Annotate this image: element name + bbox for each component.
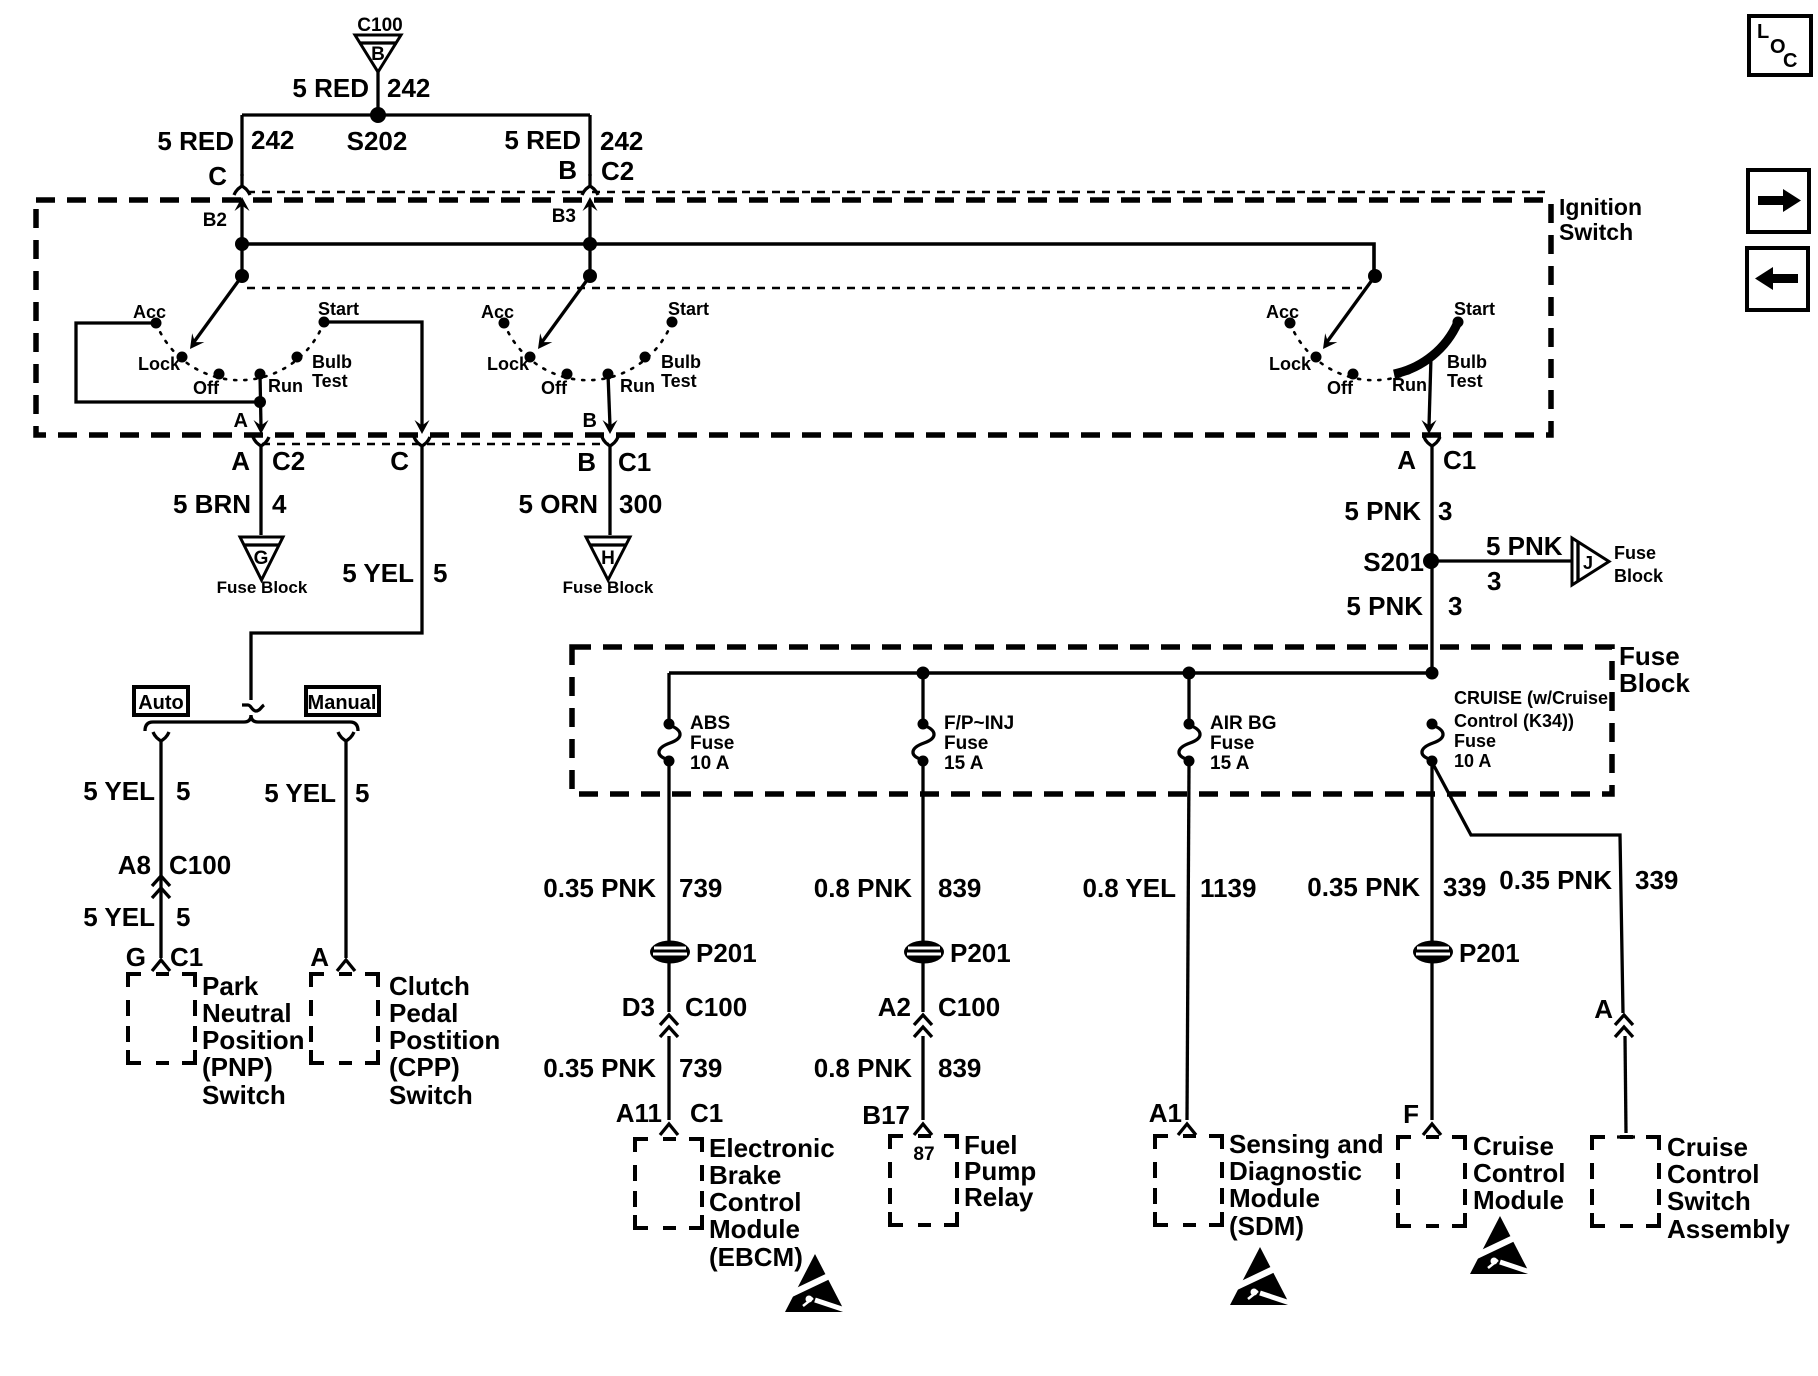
svg-text:A: A [1594, 994, 1613, 1024]
svg-text:339: 339 [1635, 865, 1678, 895]
connector H triangle (fuse block) [563, 537, 654, 597]
svg-text:J: J [1583, 553, 1593, 573]
connector fork B/C1 [602, 437, 618, 458]
svg-text:B: B [371, 44, 385, 65]
connector J triangle (fuse block) [1572, 538, 1664, 586]
svg-text:Position: Position [202, 1025, 305, 1055]
svg-text:5 PNK: 5 PNK [1486, 531, 1563, 561]
switch 3 closed arm Run-Start (thick arc) [1394, 322, 1458, 374]
PNP switch box [128, 974, 195, 1063]
svg-text:Off: Off [1327, 378, 1354, 398]
svg-text:Fuse: Fuse [690, 733, 734, 754]
svg-text:(PNP): (PNP) [202, 1052, 273, 1082]
svg-text:Test: Test [312, 371, 348, 391]
svg-text:C100: C100 [685, 992, 747, 1022]
svg-text:Clutch: Clutch [389, 971, 470, 1001]
svg-text:5: 5 [355, 778, 369, 808]
svg-text:739: 739 [679, 873, 722, 903]
svg-text:739: 739 [679, 1053, 722, 1083]
svg-text:(EBCM): (EBCM) [709, 1242, 803, 1272]
CPP switch box [311, 974, 378, 1063]
svg-text:Lock: Lock [1269, 354, 1312, 374]
svg-text:242: 242 [387, 73, 430, 103]
svg-text:S201: S201 [1363, 547, 1424, 577]
connector hook at wire end [242, 705, 264, 711]
svg-text:3: 3 [1438, 496, 1452, 526]
svg-text:3: 3 [1487, 566, 1501, 596]
options brace [145, 715, 358, 731]
connector fork A/C2 [253, 437, 269, 458]
connector C100 pin D3 (inline) [660, 1015, 678, 1037]
svg-text:Auto: Auto [138, 692, 184, 714]
svg-text:Postition: Postition [389, 1025, 500, 1055]
connector C100 pin A8 (inline) [152, 876, 170, 898]
grommet P201 [1413, 941, 1453, 964]
svg-text:Acc: Acc [1266, 302, 1299, 322]
wire AIR BG branch [1187, 766, 1189, 1120]
svg-text:P201: P201 [696, 938, 757, 968]
junction dots on fuse bus [917, 667, 930, 680]
ESD symbol SDM [1230, 1247, 1293, 1305]
label Manual box [306, 687, 379, 715]
svg-text:Control: Control [1473, 1158, 1565, 1188]
wire S202 horizontal [242, 113, 590, 116]
svg-text:Test: Test [661, 371, 697, 391]
svg-text:0.35 PNK: 0.35 PNK [543, 1053, 656, 1083]
connector C100 (triangle, pin B) [355, 15, 403, 72]
svg-text:Acc: Acc [133, 302, 166, 322]
svg-text:C: C [1783, 50, 1797, 72]
svg-text:5 PNK: 5 PNK [1344, 496, 1421, 526]
svg-text:B: B [577, 447, 596, 477]
F/P-INJ fuse 15A [921, 673, 924, 720]
svg-text:339: 339 [1443, 872, 1486, 902]
svg-text:5 RED: 5 RED [157, 126, 234, 156]
svg-text:Switch: Switch [1559, 219, 1633, 245]
ignition switch box [36, 200, 1551, 435]
ESD symbol EBCM [785, 1254, 848, 1312]
svg-text:Switch: Switch [389, 1080, 473, 1110]
svg-text:Ignition: Ignition [1559, 194, 1642, 220]
svg-text:C2: C2 [601, 156, 634, 186]
wire to H [608, 458, 611, 535]
svg-text:Test: Test [1447, 371, 1483, 391]
svg-text:0.8 PNK: 0.8 PNK [814, 1053, 912, 1083]
svg-text:P201: P201 [1459, 938, 1520, 968]
svg-text:B: B [558, 155, 577, 185]
svg-text:4: 4 [272, 489, 287, 519]
svg-text:Start: Start [1454, 299, 1495, 319]
svg-text:A: A [234, 410, 248, 432]
wire S201 to J [1431, 559, 1572, 562]
svg-text:ABS: ABS [690, 713, 730, 734]
svg-text:(CPP): (CPP) [389, 1052, 460, 1082]
svg-text:0.35 PNK: 0.35 PNK [1307, 872, 1420, 902]
svg-text:G: G [126, 942, 146, 972]
svg-text:Sensing and: Sensing and [1229, 1129, 1384, 1159]
svg-text:C1: C1 [618, 447, 651, 477]
switch 3 arm [1327, 276, 1375, 342]
svg-text:A: A [231, 446, 250, 476]
connector fork C [234, 174, 250, 195]
svg-text:S202: S202 [347, 126, 408, 156]
svg-text:300: 300 [619, 489, 662, 519]
wire Start to C [324, 322, 422, 426]
svg-text:Start: Start [668, 299, 709, 319]
svg-text:H: H [601, 548, 615, 569]
ABS fuse 10A [667, 673, 670, 720]
wire Manual branch [344, 753, 347, 958]
svg-text:Relay: Relay [964, 1182, 1034, 1212]
svg-text:AIR BG: AIR BG [1210, 713, 1277, 734]
svg-text:15 A: 15 A [1210, 753, 1250, 774]
svg-text:C1: C1 [690, 1098, 723, 1128]
LOC badge [1749, 16, 1811, 75]
connector pin A (inline) [1615, 1015, 1633, 1037]
svg-text:Control: Control [1667, 1159, 1759, 1189]
pin B2 arrow [235, 197, 250, 211]
svg-text:Brake: Brake [709, 1160, 781, 1190]
svg-text:Cruise: Cruise [1473, 1131, 1554, 1161]
nav arrow right [1748, 170, 1809, 232]
wire C100 to S202 [376, 72, 379, 115]
svg-text:C100: C100 [357, 15, 402, 36]
svg-text:Diagnostic: Diagnostic [1229, 1156, 1362, 1186]
junction dots [235, 237, 249, 251]
svg-text:5: 5 [433, 558, 447, 588]
svg-text:C100: C100 [938, 992, 1000, 1022]
wire cruise switch branch [1433, 764, 1623, 1013]
switch 3 contacts arc [1290, 322, 1458, 380]
svg-text:Lock: Lock [487, 354, 530, 374]
svg-text:B2: B2 [203, 210, 227, 231]
svg-text:Switch: Switch [1667, 1186, 1751, 1216]
svg-text:5 YEL: 5 YEL [83, 902, 155, 932]
svg-text:Block: Block [1614, 566, 1664, 586]
wire Acc loop [76, 323, 260, 402]
svg-text:Fuse: Fuse [1614, 543, 1656, 563]
svg-text:Fuse: Fuse [1619, 641, 1680, 671]
switch 1 pivot [235, 269, 249, 283]
svg-text:P201: P201 [950, 938, 1011, 968]
svg-text:Fuse: Fuse [1210, 733, 1254, 754]
Cruise Control Switch Assembly box [1592, 1137, 1659, 1226]
connector fork Auto branch [153, 732, 169, 753]
svg-text:Fuse: Fuse [944, 733, 988, 754]
svg-text:5 ORN: 5 ORN [519, 489, 598, 519]
svg-text:15 A: 15 A [944, 753, 984, 774]
svg-text:0.8 PNK: 0.8 PNK [814, 873, 912, 903]
svg-text:CRUISE (w/Cruise: CRUISE (w/Cruise [1454, 688, 1608, 708]
wire bus [242, 244, 1374, 276]
wire CRUISE branch [1430, 766, 1433, 960]
switch 1 arm [194, 276, 242, 342]
splice S201 [1423, 553, 1439, 569]
connector fork Manual branch [338, 732, 354, 753]
svg-text:Acc: Acc [481, 302, 514, 322]
svg-text:C1: C1 [170, 942, 203, 972]
svg-text:Run: Run [620, 376, 655, 396]
svg-text:C1: C1 [1443, 445, 1476, 475]
svg-text:A: A [310, 942, 329, 972]
switch 2 pivot [583, 269, 597, 283]
svg-text:Run: Run [1392, 375, 1427, 395]
Cruise Control Module box [1398, 1137, 1465, 1226]
nav arrow left [1747, 248, 1808, 310]
svg-text:Fuse Block: Fuse Block [563, 578, 654, 597]
connector boundary dashed line (top) [247, 191, 1545, 194]
svg-text:87: 87 [913, 1144, 934, 1165]
svg-text:Module: Module [709, 1214, 800, 1244]
EBCM box [635, 1139, 702, 1228]
pin B3 arrow [583, 197, 598, 211]
svg-text:Bulb: Bulb [661, 352, 701, 372]
svg-text:1139: 1139 [1200, 873, 1256, 903]
svg-text:0.35 PNK: 0.35 PNK [1499, 865, 1612, 895]
connector fork B/C2 [582, 174, 598, 195]
CRUISE fuse 10A [1422, 719, 1443, 767]
svg-text:Control (K34)): Control (K34)) [1454, 711, 1574, 731]
svg-text:Neutral: Neutral [202, 998, 292, 1028]
wire to S201 [1430, 458, 1433, 673]
svg-text:B17: B17 [862, 1100, 910, 1130]
wire Run2 drop to B [608, 374, 610, 426]
svg-text:5 RED: 5 RED [292, 73, 369, 103]
svg-text:5 YEL: 5 YEL [264, 778, 336, 808]
connector boundary dashed line (bottom row) [262, 443, 609, 446]
grommet P201 [650, 941, 690, 964]
svg-text:5: 5 [176, 902, 190, 932]
svg-text:Pedal: Pedal [389, 998, 458, 1028]
svg-text:F: F [1403, 1099, 1419, 1129]
AIR BG fuse 15A [1187, 673, 1190, 720]
connector fork C [414, 437, 430, 458]
svg-text:10 A: 10 A [1454, 751, 1491, 771]
svg-text:Block: Block [1619, 668, 1690, 698]
svg-text:242: 242 [600, 126, 643, 156]
svg-text:C: C [208, 161, 227, 191]
svg-text:839: 839 [938, 1053, 981, 1083]
svg-text:A2: A2 [878, 992, 911, 1022]
connector boundary dashed line (inner) [247, 287, 1362, 290]
svg-text:A8: A8 [118, 850, 151, 880]
svg-text:D3: D3 [622, 992, 655, 1022]
svg-text:5 YEL: 5 YEL [342, 558, 414, 588]
svg-text:5 RED: 5 RED [504, 125, 581, 155]
grommet P201 [904, 941, 944, 964]
svg-text:5 PNK: 5 PNK [1346, 591, 1423, 621]
svg-text:10 A: 10 A [690, 753, 730, 774]
svg-text:0.8 YEL: 0.8 YEL [1083, 873, 1177, 903]
svg-text:B3: B3 [552, 206, 576, 227]
splice S202 node [370, 107, 386, 123]
svg-text:C: C [390, 446, 409, 476]
switch 2 arm [542, 276, 590, 342]
svg-text:5: 5 [176, 776, 190, 806]
svg-text:A11: A11 [616, 1098, 662, 1128]
svg-text:Fuse Block: Fuse Block [217, 578, 308, 597]
svg-text:839: 839 [938, 873, 981, 903]
svg-text:G: G [254, 548, 269, 569]
svg-text:Bulb: Bulb [312, 352, 352, 372]
wire to G [259, 458, 262, 535]
svg-text:(SDM): (SDM) [1229, 1211, 1304, 1241]
wire ABS branch [667, 766, 670, 960]
ESD symbol CCM [1470, 1216, 1533, 1274]
svg-text:A: A [1397, 445, 1416, 475]
svg-text:242: 242 [251, 125, 294, 155]
switch 2 contacts arc [504, 322, 672, 380]
svg-text:Park: Park [202, 971, 259, 1001]
switch 1 contacts arc [156, 322, 324, 380]
svg-text:F/P~INJ: F/P~INJ [944, 713, 1014, 734]
svg-text:0.35 PNK: 0.35 PNK [543, 873, 656, 903]
svg-text:Control: Control [709, 1187, 801, 1217]
connector C100 pin A2 (inline) [914, 1015, 932, 1037]
svg-text:L: L [1757, 21, 1769, 43]
svg-text:Cruise: Cruise [1667, 1132, 1748, 1162]
svg-text:Off: Off [193, 378, 220, 398]
label Auto box [134, 687, 188, 715]
SDM box [1155, 1136, 1222, 1225]
wire BulbTest drop to A/C1 [1429, 357, 1431, 426]
svg-text:Run: Run [268, 376, 303, 396]
svg-text:Start: Start [318, 299, 359, 319]
Fuel Pump Relay box [890, 1136, 957, 1225]
svg-text:3: 3 [1448, 591, 1462, 621]
wire Run drop to A [260, 374, 261, 426]
svg-text:Module: Module [1229, 1183, 1320, 1213]
wire C to Auto/Manual [251, 458, 422, 700]
fuse block box [572, 647, 1612, 794]
svg-text:Lock: Lock [138, 354, 181, 374]
svg-text:Fuse: Fuse [1454, 731, 1496, 751]
svg-text:C100: C100 [169, 850, 231, 880]
svg-text:C2: C2 [272, 446, 305, 476]
svg-text:5 BRN: 5 BRN [173, 489, 251, 519]
wire F/P branch [921, 766, 924, 960]
svg-text:Assembly: Assembly [1667, 1214, 1790, 1244]
svg-text:Switch: Switch [202, 1080, 286, 1110]
svg-text:Bulb: Bulb [1447, 352, 1487, 372]
svg-text:Module: Module [1473, 1185, 1564, 1215]
svg-text:B: B [583, 410, 597, 432]
svg-text:Manual: Manual [308, 692, 377, 714]
svg-text:Electronic: Electronic [709, 1133, 835, 1163]
svg-text:Off: Off [541, 378, 568, 398]
connector G triangle (fuse block) [217, 537, 308, 597]
switch 3 pivot [1368, 269, 1382, 283]
wire right drop to C2 [588, 115, 591, 176]
svg-text:A1: A1 [1149, 1098, 1182, 1128]
wire left drop to C [240, 115, 243, 176]
wire fuse bus [669, 671, 1432, 675]
connector fork A/C1 [1424, 437, 1440, 458]
svg-text:5 YEL: 5 YEL [83, 776, 155, 806]
wire Auto branch [159, 753, 162, 958]
